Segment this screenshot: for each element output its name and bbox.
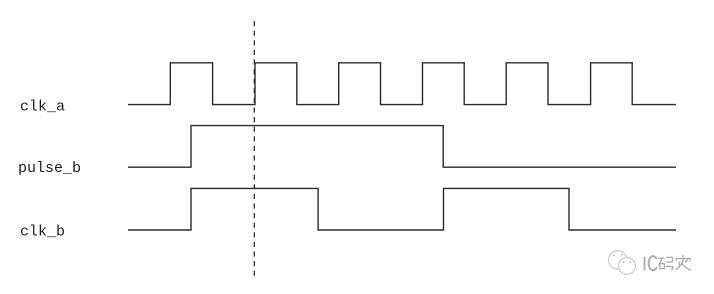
- clk_b waveform trace: [128, 188, 676, 230]
- svg-text:clk_a: clk_a: [20, 99, 65, 116]
- watermark logo: right chat-bubble circle: [619, 258, 636, 275]
- pulse_b waveform trace: [128, 126, 676, 168]
- watermark text letter C: [649, 256, 657, 270]
- dashed time marker line: [253, 21, 255, 277]
- clk_a waveform trace: [128, 63, 676, 105]
- watermark hanzi 码: [658, 257, 673, 269]
- watermark logo: left chat-bubble circle: [609, 251, 628, 270]
- svg-text:clk_b: clk_b: [20, 224, 65, 241]
- watermark text letter I: [644, 257, 646, 271]
- watermark hanzi 农: [676, 255, 691, 270]
- svg-text:pulse_b: pulse_b: [18, 160, 81, 177]
